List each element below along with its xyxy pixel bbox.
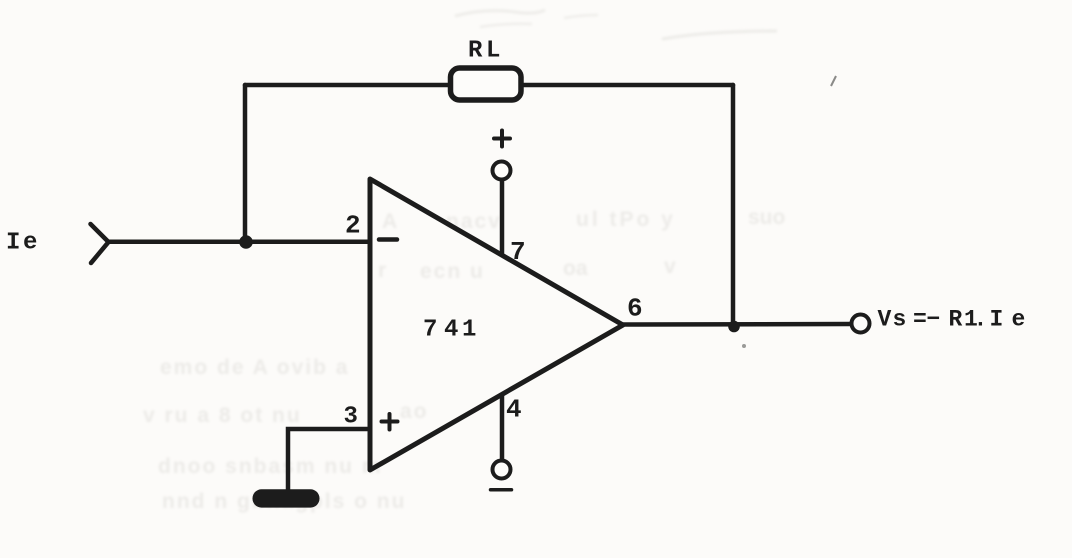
svg-text:dnoo snbasm nu m: dnoo snbasm nu m	[158, 455, 383, 478]
wire: top feedback left segment	[245, 83, 450, 88]
svg-text:A: A	[382, 210, 397, 233]
minus sign negative supply	[491, 488, 512, 492]
svg-text:741: 741	[423, 317, 476, 344]
svg-text:Vs=−R1.Ie: Vs=−R1.Ie	[878, 307, 1026, 333]
wire: pin 7 to positive supply	[500, 181, 505, 253]
op-amp U1 741 triangle	[370, 179, 623, 470]
wire: output from pin 6 to terminal	[623, 322, 850, 327]
wire: right vertical feedback to output node	[731, 85, 736, 325]
output terminal circle	[852, 315, 870, 333]
ground symbol	[253, 489, 320, 507]
plus sign positive supply	[494, 131, 510, 147]
wire: pin 3 to ground	[288, 429, 370, 490]
wire: input to inverting pin 2	[109, 240, 371, 245]
svg-text:7: 7	[510, 237, 526, 267]
svg-text:suo: suo	[748, 206, 785, 229]
junction dot: output node	[728, 321, 740, 333]
input terminal Ie (open Y connector)	[91, 224, 109, 263]
wire: left vertical from top run to input node	[243, 85, 248, 242]
negative supply terminal circle	[493, 461, 511, 479]
inverting input minus sign	[379, 237, 397, 242]
svg-text:r: r	[378, 259, 386, 282]
svg-text:v: v	[664, 255, 676, 278]
positive supply terminal circle	[493, 162, 511, 180]
svg-text:6: 6	[627, 294, 643, 324]
svg-text:v ru a 8 ot nu: v ru a 8 ot nu	[143, 404, 302, 427]
svg-text:2: 2	[345, 211, 361, 241]
svg-text:ul tPo y: ul tPo y	[576, 208, 676, 231]
junction dot: input node	[239, 235, 253, 249]
svg-text:ecn u: ecn u	[420, 260, 485, 283]
svg-text:3: 3	[344, 404, 358, 431]
wire: top feedback right segment	[521, 83, 733, 88]
wire: pin 4 to negative supply	[500, 396, 505, 459]
svg-text:emo de A ovib a: emo de A ovib a	[160, 356, 349, 379]
non-inverting input plus sign	[382, 414, 398, 430]
svg-text:4: 4	[506, 395, 522, 425]
svg-text:ao: ao	[400, 400, 429, 423]
resistor RL	[451, 68, 522, 100]
svg-text:oa: oa	[563, 257, 588, 280]
